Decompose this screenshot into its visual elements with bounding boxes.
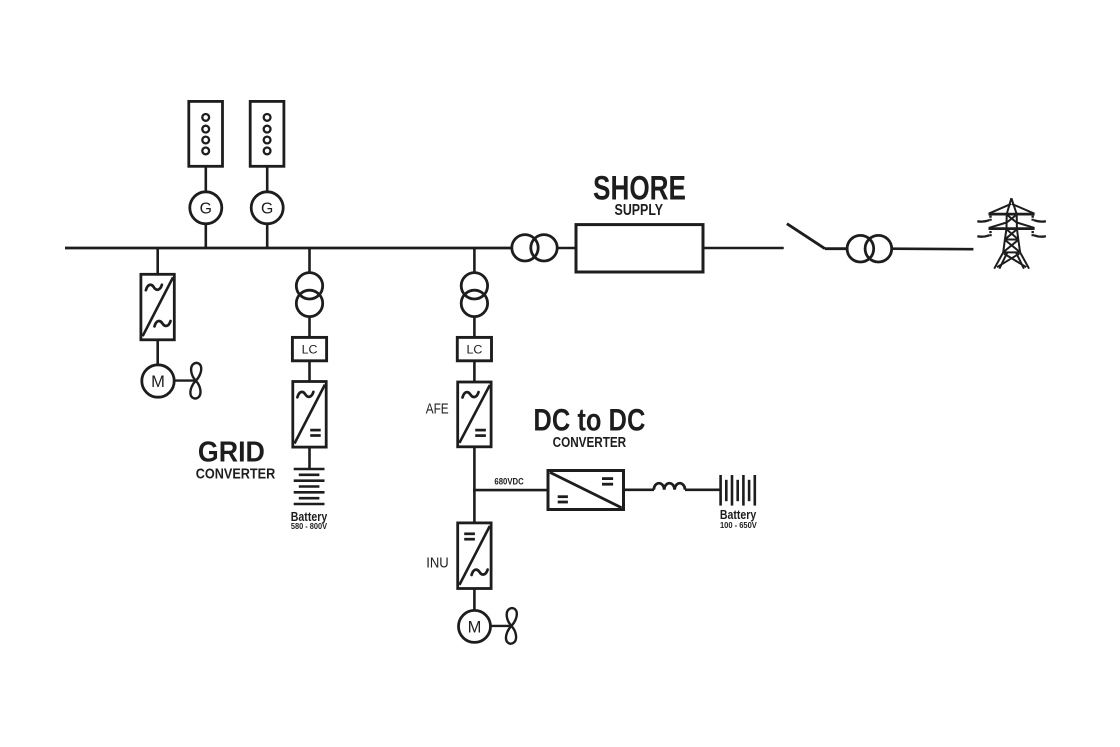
- transformer T4: [847, 235, 892, 262]
- propeller P2: [506, 608, 517, 644]
- tower mast edges section C: [1003, 240, 1005, 253]
- svg-text:DC to DC: DC to DC: [533, 402, 645, 438]
- conductor wire lower-left: [977, 235, 989, 236]
- thruster frequency converter U1 (AC/AC): [141, 274, 174, 340]
- engine E1 (genset 1 prime mover): [189, 101, 223, 166]
- svg-text:AFE: AFE: [426, 401, 449, 418]
- tower X-brace section B: [1007, 229, 1019, 239]
- wire E2 to G2: [266, 166, 269, 192]
- wire bus to transformer T2: [473, 248, 476, 273]
- generator G2: [251, 192, 283, 224]
- tower rung B: [1005, 239, 1018, 241]
- shore supply box: [576, 225, 703, 272]
- propeller P1: [190, 363, 201, 399]
- conductor wire upper-right: [1034, 220, 1046, 221]
- DC to DC converter U5: [548, 471, 624, 510]
- motor M2: [459, 610, 491, 642]
- tower lower crossarm: [989, 227, 1035, 230]
- wire LC2 to AFE converter U3: [473, 361, 476, 382]
- wire U5 to inductor L1: [624, 488, 655, 491]
- svg-text:M: M: [468, 618, 482, 636]
- tower right leg: [1020, 252, 1029, 268]
- svg-text:CONVERTER: CONVERTER: [553, 434, 627, 451]
- tower leg X-brace: [1004, 254, 1026, 268]
- wire U1 to motor M1: [156, 340, 159, 365]
- insulator lower-right: [1031, 231, 1033, 236]
- svg-text:LC: LC: [302, 343, 318, 357]
- disconnect switch S1: [787, 224, 846, 249]
- wire U4 to motor M2: [473, 589, 476, 611]
- tower lower crossarm fan diagonals: [989, 223, 1007, 228]
- LC filter LC1: [292, 337, 326, 360]
- wire G2 to bus: [266, 224, 269, 249]
- wire E1 to G1: [205, 166, 208, 192]
- insulator upper-right: [1031, 216, 1033, 222]
- wire node to INU converter U4: [473, 490, 476, 523]
- transformer T2: [461, 273, 487, 317]
- LC filter LC2: [457, 337, 491, 360]
- tower X-brace section A: [1007, 215, 1017, 223]
- svg-text:SUPPLY: SUPPLY: [615, 202, 664, 219]
- transformer T1: [296, 273, 322, 317]
- conductor wire lower-right: [1034, 235, 1046, 236]
- engine E2 (genset 2 prime mover): [250, 101, 284, 166]
- wire G1 to bus: [205, 224, 208, 249]
- tower mast edges section A: [1006, 214, 1008, 228]
- INU inverter U4 (DC/AC): [458, 523, 491, 589]
- inductor L1: [654, 483, 685, 490]
- shore transformer T3: [512, 235, 557, 261]
- shaft M2 to propeller P2: [491, 625, 512, 627]
- wire shore box to switch S1: [703, 247, 784, 250]
- svg-text:GRID: GRID: [198, 436, 265, 468]
- insulator upper-left: [989, 216, 991, 222]
- tower mast edges section B: [1005, 229, 1007, 240]
- tower apex mast edges: [1007, 198, 1012, 214]
- AFE converter U3 (AC/DC): [458, 382, 491, 447]
- svg-text:100 - 650V: 100 - 650V: [720, 520, 757, 530]
- wire T1 to LC1: [308, 317, 311, 338]
- wire L1 to battery B2: [685, 488, 720, 491]
- conductor wire upper-left: [977, 220, 989, 221]
- DC link wire node to DC-DC converter: [473, 489, 548, 492]
- wire bus to thruster converter U1: [156, 248, 159, 274]
- svg-text:CONVERTER: CONVERTER: [196, 465, 276, 482]
- svg-text:680VDC: 680VDC: [494, 476, 524, 486]
- transmission tower (utility grid): [977, 198, 1046, 269]
- motor M1: [142, 365, 174, 397]
- svg-text:580 - 800V: 580 - 800V: [291, 521, 328, 531]
- generator G1: [190, 192, 222, 224]
- svg-text:G: G: [200, 200, 212, 217]
- main AC bus: [65, 247, 512, 250]
- wire LC1 to grid converter U2: [308, 361, 311, 382]
- tower rung C: [1003, 251, 1020, 253]
- tower upper crossarm: [989, 213, 1035, 216]
- shaft M1 to propeller P1: [174, 379, 196, 381]
- battery B1: [294, 469, 325, 504]
- svg-text:M: M: [151, 373, 165, 391]
- insulator lower-left: [989, 231, 991, 236]
- wire T3 to shore supply box: [557, 247, 576, 250]
- wire T2 to LC2: [473, 317, 476, 338]
- svg-text:LC: LC: [466, 343, 482, 357]
- svg-text:INU: INU: [426, 555, 449, 572]
- wire T4 to utility tower: [892, 247, 974, 250]
- svg-text:G: G: [261, 200, 273, 217]
- grid converter U2 (AC/DC): [293, 382, 326, 448]
- tower apex diagonals to crossarm tips: [989, 204, 1011, 214]
- tower X-brace section C: [1005, 240, 1020, 252]
- battery B2: [721, 475, 755, 506]
- tower left leg: [994, 252, 1003, 268]
- wire U3 to DC node: [473, 447, 476, 492]
- wire U2 to battery B1: [308, 447, 311, 469]
- wire bus to transformer T1: [308, 248, 311, 273]
